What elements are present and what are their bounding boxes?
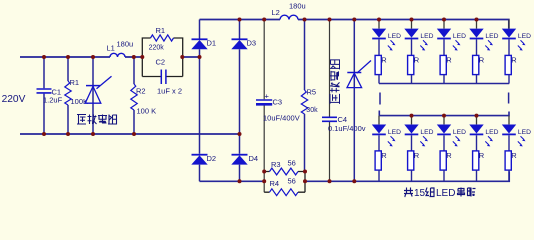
svg-text:220k: 220k [149,44,165,51]
wire DC- rail y=181.3 [200,171,510,181]
svg-text:30k: 30k [306,107,318,114]
wire DC+ top rail y=19.5 [200,20,509,29]
resistor R3 56 [270,168,299,175]
wire LED row1 bottom bus y=83.5 [379,83,509,85]
svg-text:C3: C3 [273,98,283,107]
node r3-x264.2 [262,170,266,174]
svg-text:15: 15 [414,188,426,199]
inductor L2 [280,15,298,19]
resistor R4 56 [270,189,299,196]
node rail+-x304.5 [303,18,307,22]
wire block to bridge [183,56,200,58]
resistor R2 100K [133,57,135,134]
LED row2 #3 [443,116,445,125]
wire LED row2 top rail y=115.6 [379,111,509,116]
svg-text:LED: LED [485,33,498,40]
wire D1 column [199,20,201,182]
resistor R row2 #2 [408,151,414,170]
node y134-x134 [132,132,136,136]
svg-text:56: 56 [288,159,296,168]
node rail--x305 [303,179,307,183]
svg-text:1uF x 2: 1uF x 2 [157,87,182,96]
wire AC live top, y=57 [20,56,142,58]
capacitor C4 [329,20,331,182]
node rail--x239.5 [238,179,242,183]
svg-text:LED: LED [453,129,466,136]
node y134-x68 [66,132,70,136]
svg-text:LED: LED [485,129,498,136]
svg-text:R2: R2 [136,87,146,96]
resistor R row2 #3 [440,151,446,170]
svg-text:R: R [381,151,387,160]
svg-text:R: R [479,55,485,64]
label varistor (CJK drawn) [77,115,86,125]
node y57-x133.8 [132,55,136,59]
capacitor C1 [43,57,45,134]
capacitor C3 (electrolytic) [263,20,265,193]
node y134-x44 [42,132,46,136]
resistor R row2 #1 [375,151,381,170]
resistor R row1 #3 [440,55,446,74]
node y57-x199.5 [198,55,202,59]
svg-text:R: R [414,55,420,64]
node rail+-x329.5 [328,18,332,22]
node row2-x476.5 [475,114,479,118]
resistor R row1 #2 [408,55,414,74]
inductor L1 [110,53,125,57]
svg-text:R3: R3 [271,160,281,169]
svg-text:R4: R4 [270,179,280,188]
svg-text:R: R [414,151,420,160]
resistor R1 220k (snubber) [151,35,174,41]
svg-text:C2: C2 [156,58,166,67]
diode D2 [192,154,208,156]
svg-text:LED: LED [420,129,433,136]
resistor R row2 #4 [473,151,479,170]
node rail+-x444 [442,18,446,22]
svg-text:LED: LED [436,188,455,199]
node y57-x142.3 [140,55,144,59]
svg-text:C4: C4 [338,115,348,124]
label varistor vertical (CJK drawn, rotated) [330,59,340,69]
LED row1 #2 [411,20,413,29]
caption 15 groups LED in series (CJK drawn + text) [404,188,413,197]
svg-text:1.2uF: 1.2uF [43,96,63,105]
resistor R row1 #5 [505,55,511,74]
wire AC neutral bottom, y=134 [20,133,240,135]
svg-text:LED: LED [420,33,433,40]
resistor R1 100K [67,57,69,134]
svg-text:LED: LED [453,33,466,40]
wire D3 column [239,20,241,182]
svg-text:+: + [265,92,270,101]
svg-text:0.1uF/400v: 0.1uF/400v [328,124,366,133]
diode D3 [232,38,248,40]
LED row2 #5 [508,116,510,125]
svg-text:LED: LED [388,129,401,136]
svg-text:LED: LED [388,33,401,40]
LED row2 #4 [476,116,478,125]
diode D1 [192,38,208,40]
node row2-x411.5 [410,114,414,118]
varistor RV2 [353,20,355,182]
node y134-x239.5 [238,132,242,136]
resistor R row1 #1 [375,55,381,74]
varistor RV1 [92,57,94,134]
continuation dash right [508,93,510,104]
svg-text:R1: R1 [70,78,80,87]
node rail--x264.2 [262,179,266,183]
svg-text:R: R [446,151,452,160]
svg-text:R1: R1 [156,26,166,35]
svg-text:100 K: 100 K [137,107,157,116]
svg-text:56: 56 [288,177,296,186]
svg-text:220V: 220V [2,94,26,105]
node y134-x93 [91,132,95,136]
svg-text:180u: 180u [117,40,134,49]
node rail+-x239.5 [238,18,242,22]
node r3-x305 [303,170,307,174]
LED row1 #4 [476,20,478,29]
svg-text:R: R [511,151,517,160]
svg-text:R: R [381,55,387,64]
svg-text:D3: D3 [247,39,257,48]
node y57-x93 [91,55,95,59]
node rail--x329.5 [328,179,332,183]
LED row1 #1 [378,20,380,29]
LED row1 #3 [443,20,445,29]
svg-text:D4: D4 [249,154,259,163]
node y57-x44 [42,55,46,59]
svg-text:R5: R5 [307,88,317,97]
svg-text:D1: D1 [207,39,217,48]
svg-text:10uF/400V: 10uF/400V [263,114,300,123]
svg-text:L2: L2 [272,8,280,17]
svg-text:D2: D2 [207,154,217,163]
svg-text:LED: LED [518,129,531,136]
node rail+-x379 [377,18,381,22]
LED row2 #2 [411,116,413,125]
resistor R row1 #4 [473,55,479,74]
svg-text:LED: LED [518,33,531,40]
resistor R row2 #5 [505,151,511,170]
svg-text:R: R [511,55,517,64]
node rail--x354.3 [352,179,356,183]
node rail+-x264.2 [262,18,266,22]
resistor R5 30k [304,20,306,172]
snubber block frame wires [142,38,182,77]
LED row1 #5 [508,20,510,29]
node y57-x182.3 [180,55,184,59]
continuation dash left [379,93,381,105]
node row2-x444 [442,114,446,118]
svg-text:R: R [479,151,485,160]
svg-text:180u: 180u [289,2,306,11]
svg-text:R: R [446,55,452,64]
node rail+-x411.5 [410,18,414,22]
R3/R4 block frame [264,172,305,193]
LED row2 #1 [378,116,380,125]
diode D4 [232,154,248,156]
node y57-x68 [66,55,70,59]
node rail+-x476.5 [475,18,479,22]
svg-text:L1: L1 [107,44,115,53]
capacitor C2 [161,70,166,85]
node rail+-x354.3 [352,18,356,22]
